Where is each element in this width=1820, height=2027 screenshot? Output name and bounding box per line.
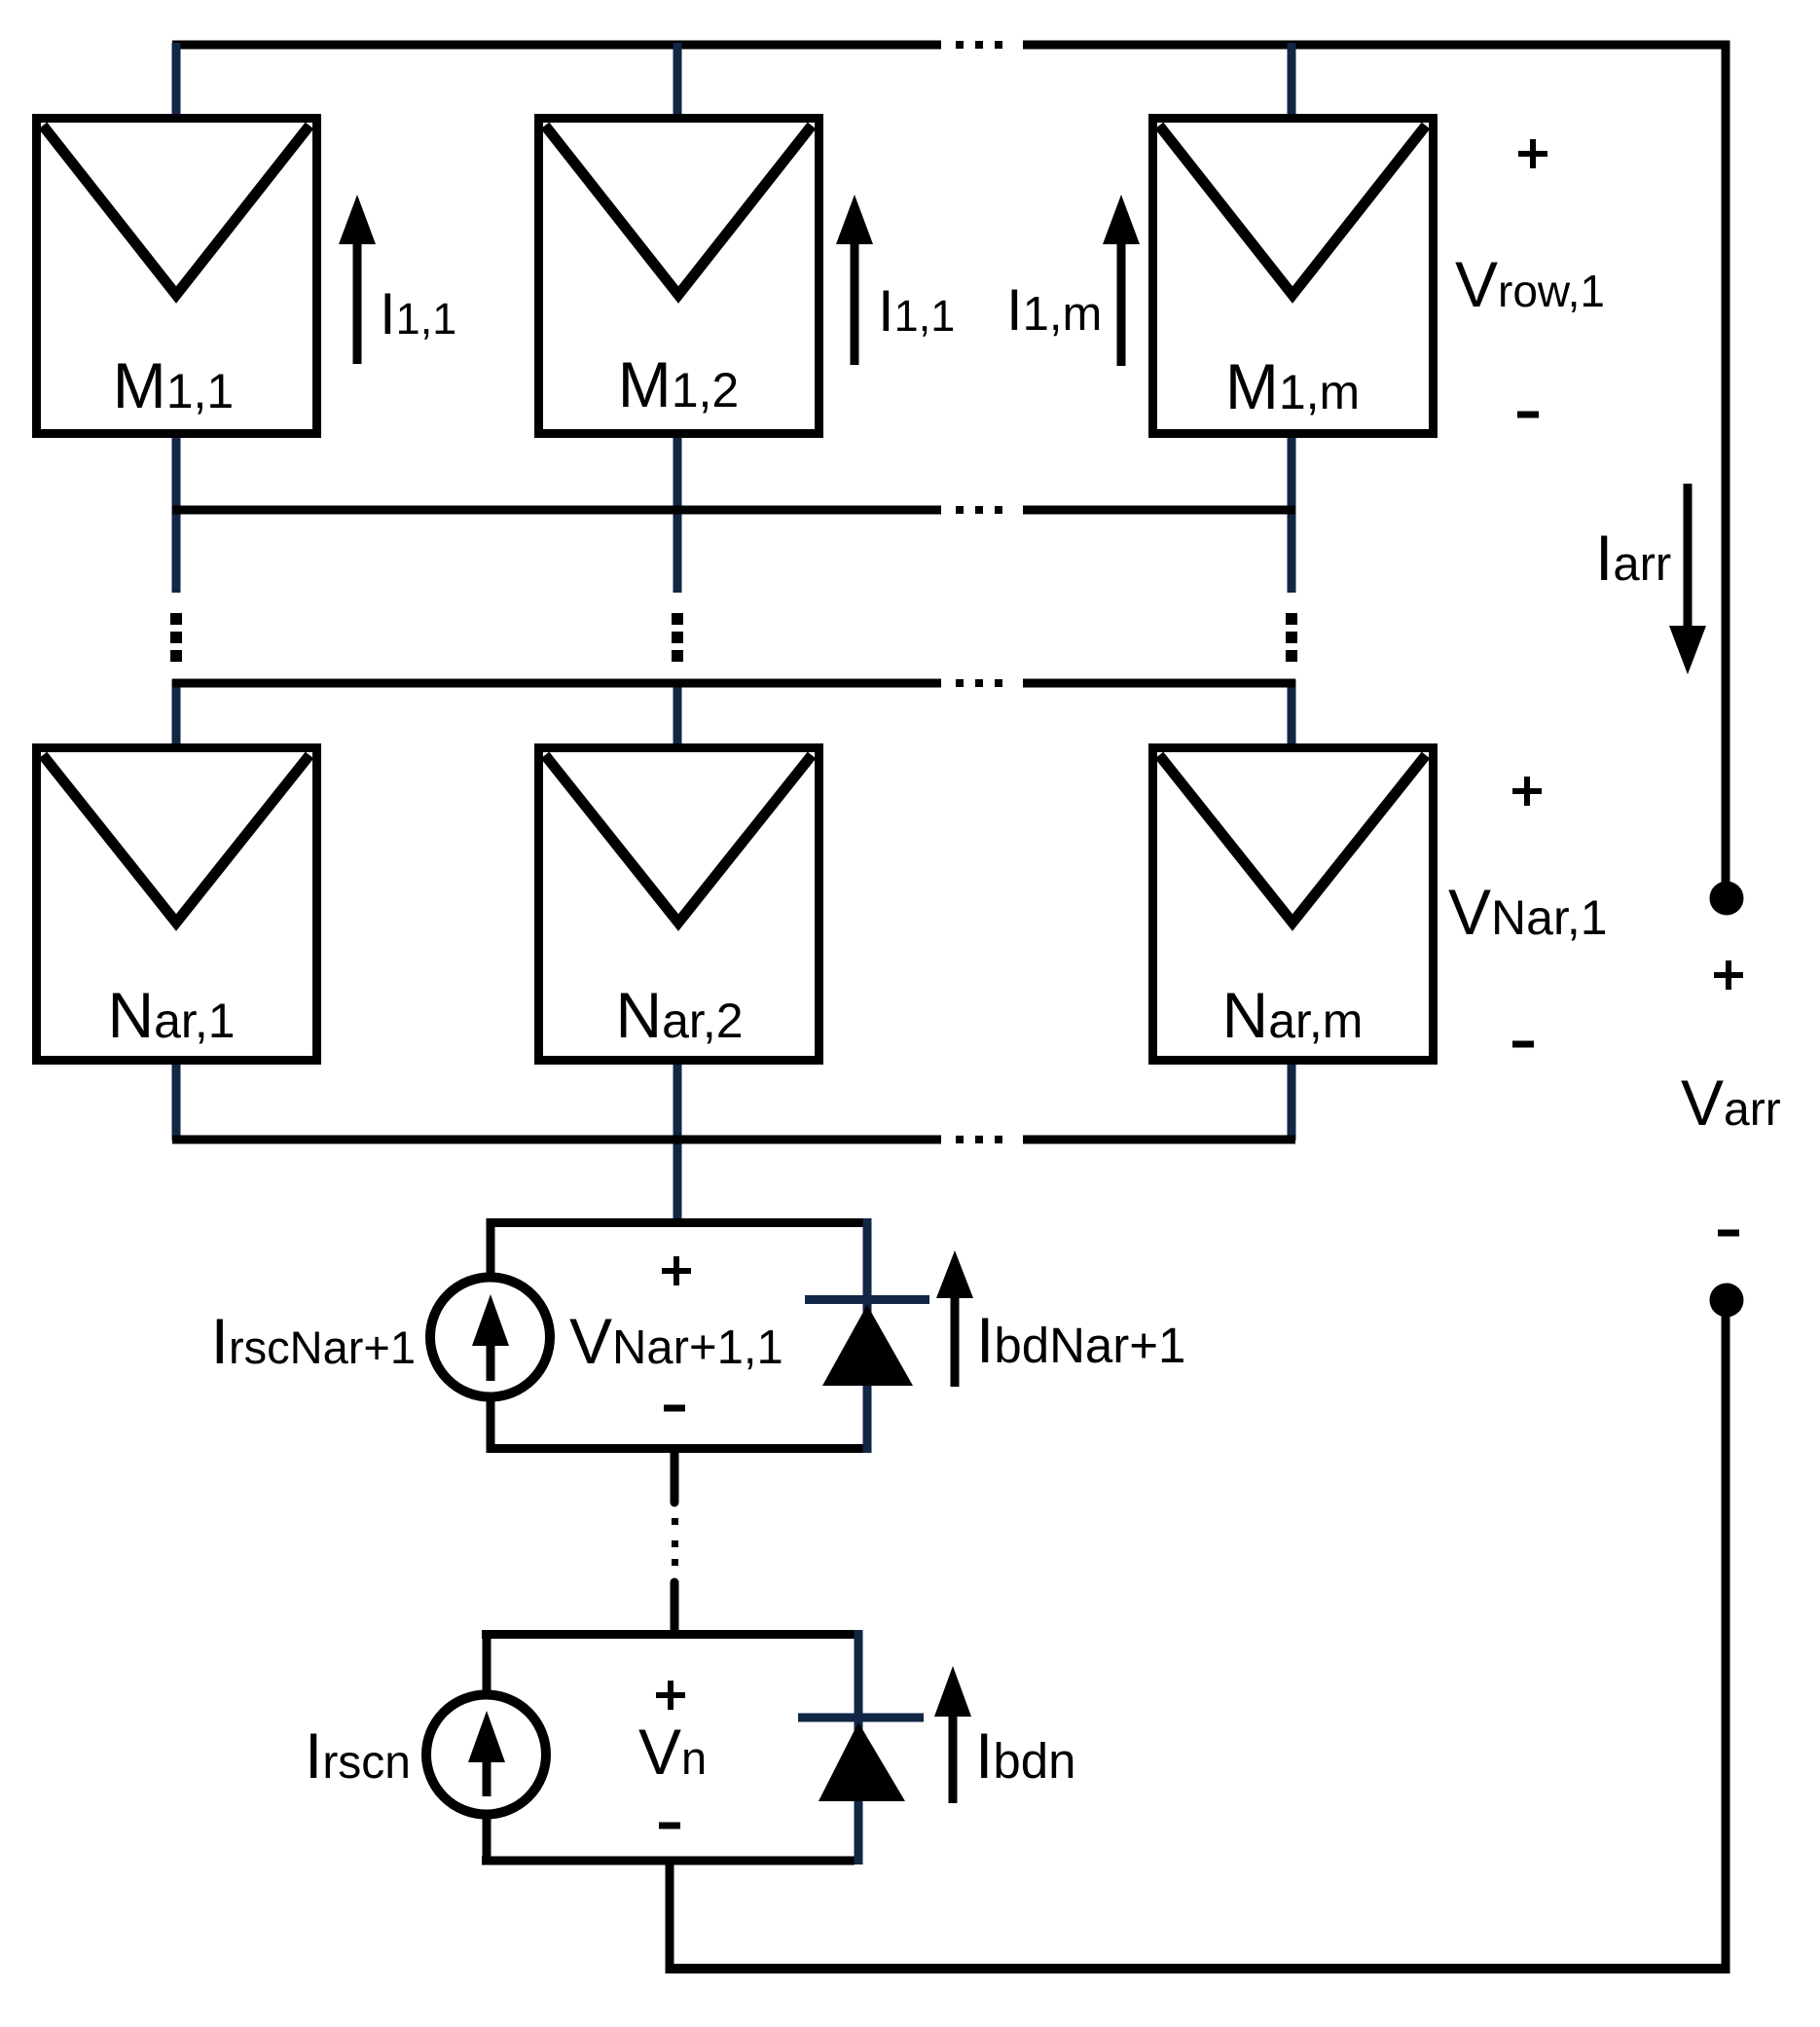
wire: column 1 into module Nar,1	[172, 679, 181, 745]
bypass diode of row Nar+1: cathode branch	[863, 1218, 872, 1453]
bus 2 continuation dots	[956, 679, 1002, 687]
wire: column 2 between module row 1 and row 2	[673, 438, 682, 593]
svg-text:Ibdn: Ibdn	[975, 1719, 1075, 1792]
svg-text:VNar+1,1: VNar+1,1	[569, 1305, 783, 1377]
svg-text:IbdNar+1: IbdNar+1	[976, 1304, 1185, 1376]
wire: dashed link between bypass rows (upper solid)	[671, 1453, 679, 1502]
PV module M1,2	[539, 119, 819, 434]
svg-text:Vn: Vn	[638, 1716, 707, 1788]
arrow: bypass diode current Ibdn	[934, 1666, 971, 1803]
bypass row n box: bottom wire	[482, 1857, 855, 1865]
svg-text:Nar,1: Nar,1	[107, 979, 235, 1051]
bypass diode of row n: triangle	[819, 1722, 905, 1801]
svg-text:I1,1: I1,1	[878, 278, 955, 344]
wire: bottom return bus	[666, 1964, 1730, 1973]
bypass row Nar+1 box: bottom wire	[487, 1444, 863, 1453]
wire: bus 3 left segment	[172, 1136, 941, 1144]
wire: bus 1 right segment	[1023, 506, 1295, 515]
plus sign of Vn	[656, 1681, 685, 1710]
plus sign of Vrow,1	[1518, 139, 1547, 168]
continuation dots column 2	[672, 613, 683, 662]
bypass row n box: left wire upper	[483, 1630, 491, 1693]
wire: top bus segment left	[172, 41, 941, 50]
wire: column 3 drop from top bus	[1288, 43, 1296, 116]
current source IrscNar+1	[430, 1278, 550, 1397]
wire: bus 3 right segment	[1023, 1136, 1295, 1144]
plus sign of VNar,1	[1512, 777, 1542, 806]
wire: bus 2 right segment	[1023, 679, 1295, 688]
bypass row n box: top wire	[482, 1630, 855, 1639]
node dot: array positive terminal	[1710, 882, 1744, 916]
PV module Nar,1	[37, 748, 317, 1061]
wire: bus 2 left segment	[172, 679, 941, 688]
svg-text:Irscn: Irscn	[305, 1719, 411, 1792]
minus sign of VNar,1	[1512, 1041, 1534, 1048]
wire: bus 1 left segment	[172, 506, 941, 515]
plus sign of VNar+1,1	[662, 1256, 691, 1285]
arrow: array current Iarr	[1669, 484, 1706, 674]
node dot: array negative terminal	[1710, 1284, 1744, 1318]
svg-text:IrscNar+1: IrscNar+1	[211, 1305, 416, 1377]
svg-text:Nar,2: Nar,2	[615, 979, 743, 1051]
PV module Nar,2	[539, 748, 819, 1061]
wire: column 3 into module Nar,m	[1288, 679, 1296, 745]
wire: bottom exit from bypass row n	[666, 1861, 674, 1973]
wire: dashed link between bypass rows (lower solid)	[671, 1582, 679, 1634]
svg-text:VNar,1: VNar,1	[1448, 876, 1608, 948]
wire: column 1 between module row 1 and row 2	[172, 438, 181, 593]
svg-text:Varr: Varr	[1681, 1067, 1781, 1139]
continuation dots column 3	[1286, 613, 1297, 662]
svg-text:Vrow,1: Vrow,1	[1455, 248, 1605, 320]
wire: right rail lower segment	[1722, 1316, 1730, 1973]
wire: column 3 below module Nar,m	[1288, 1065, 1296, 1140]
PV module M1,1	[37, 119, 317, 434]
wire: column 1 drop from top bus	[172, 43, 181, 116]
minus sign of Vrow,1	[1517, 412, 1539, 418]
wire: column 1 below module Nar,1	[172, 1065, 181, 1140]
wire: column 2 into module Nar,2	[673, 679, 682, 745]
wire: column 2 drop from top bus	[673, 43, 682, 116]
PV module Nar,m	[1153, 748, 1434, 1061]
svg-text:I1,m: I1,m	[1006, 277, 1102, 343]
bypass diode of row n: cathode bar	[798, 1714, 924, 1722]
arrow: module current I1,m (column 3)	[1103, 195, 1140, 366]
bus 3 continuation dots	[956, 1136, 1002, 1143]
svg-text:M1,1: M1,1	[113, 349, 235, 421]
svg-text:M1,2: M1,2	[618, 348, 740, 420]
wire: right rail upper segment	[1722, 41, 1730, 884]
wire: column 3 between module row 1 and row 2	[1288, 438, 1296, 593]
minus sign of Varr	[1718, 1230, 1739, 1237]
minus sign of VNar+1,1	[664, 1405, 685, 1412]
continuation dots column 1	[170, 613, 182, 662]
bypass diode of row Nar+1: triangle	[822, 1305, 913, 1386]
arrow: bypass diode current IbdNar+1	[936, 1250, 973, 1387]
svg-text:Iarr: Iarr	[1595, 522, 1671, 594]
svg-text:I1,1: I1,1	[380, 281, 456, 346]
wire: top bus segment right	[1023, 41, 1730, 50]
bus 1 continuation dots	[956, 506, 1002, 514]
dashed link dots	[672, 1518, 678, 1566]
current source Irscn	[426, 1695, 546, 1815]
arrow: module current I1,1 (column 1)	[339, 195, 376, 364]
svg-text:Nar,m: Nar,m	[1222, 979, 1364, 1051]
bypass row n box: left wire lower	[483, 1814, 491, 1864]
bypass diode of row n: cathode branch	[855, 1630, 863, 1864]
svg-text:M1,m: M1,m	[1225, 350, 1360, 422]
bypass diode of row Nar+1: cathode bar	[805, 1295, 929, 1304]
wire: column 2 below module Nar,2	[673, 1065, 682, 1222]
minus sign of Vn	[659, 1823, 680, 1829]
plus sign of Varr	[1714, 960, 1743, 990]
bypass row Nar+1 box: left wire upper	[487, 1218, 495, 1275]
arrow: module current I1,1 (column 2)	[836, 195, 873, 365]
bypass row Nar+1 box: left wire lower	[487, 1398, 495, 1453]
bypass row Nar+1 box: top wire	[487, 1218, 863, 1227]
wire: top bus continuation dots	[956, 41, 1002, 49]
PV module M1,m	[1153, 119, 1434, 434]
